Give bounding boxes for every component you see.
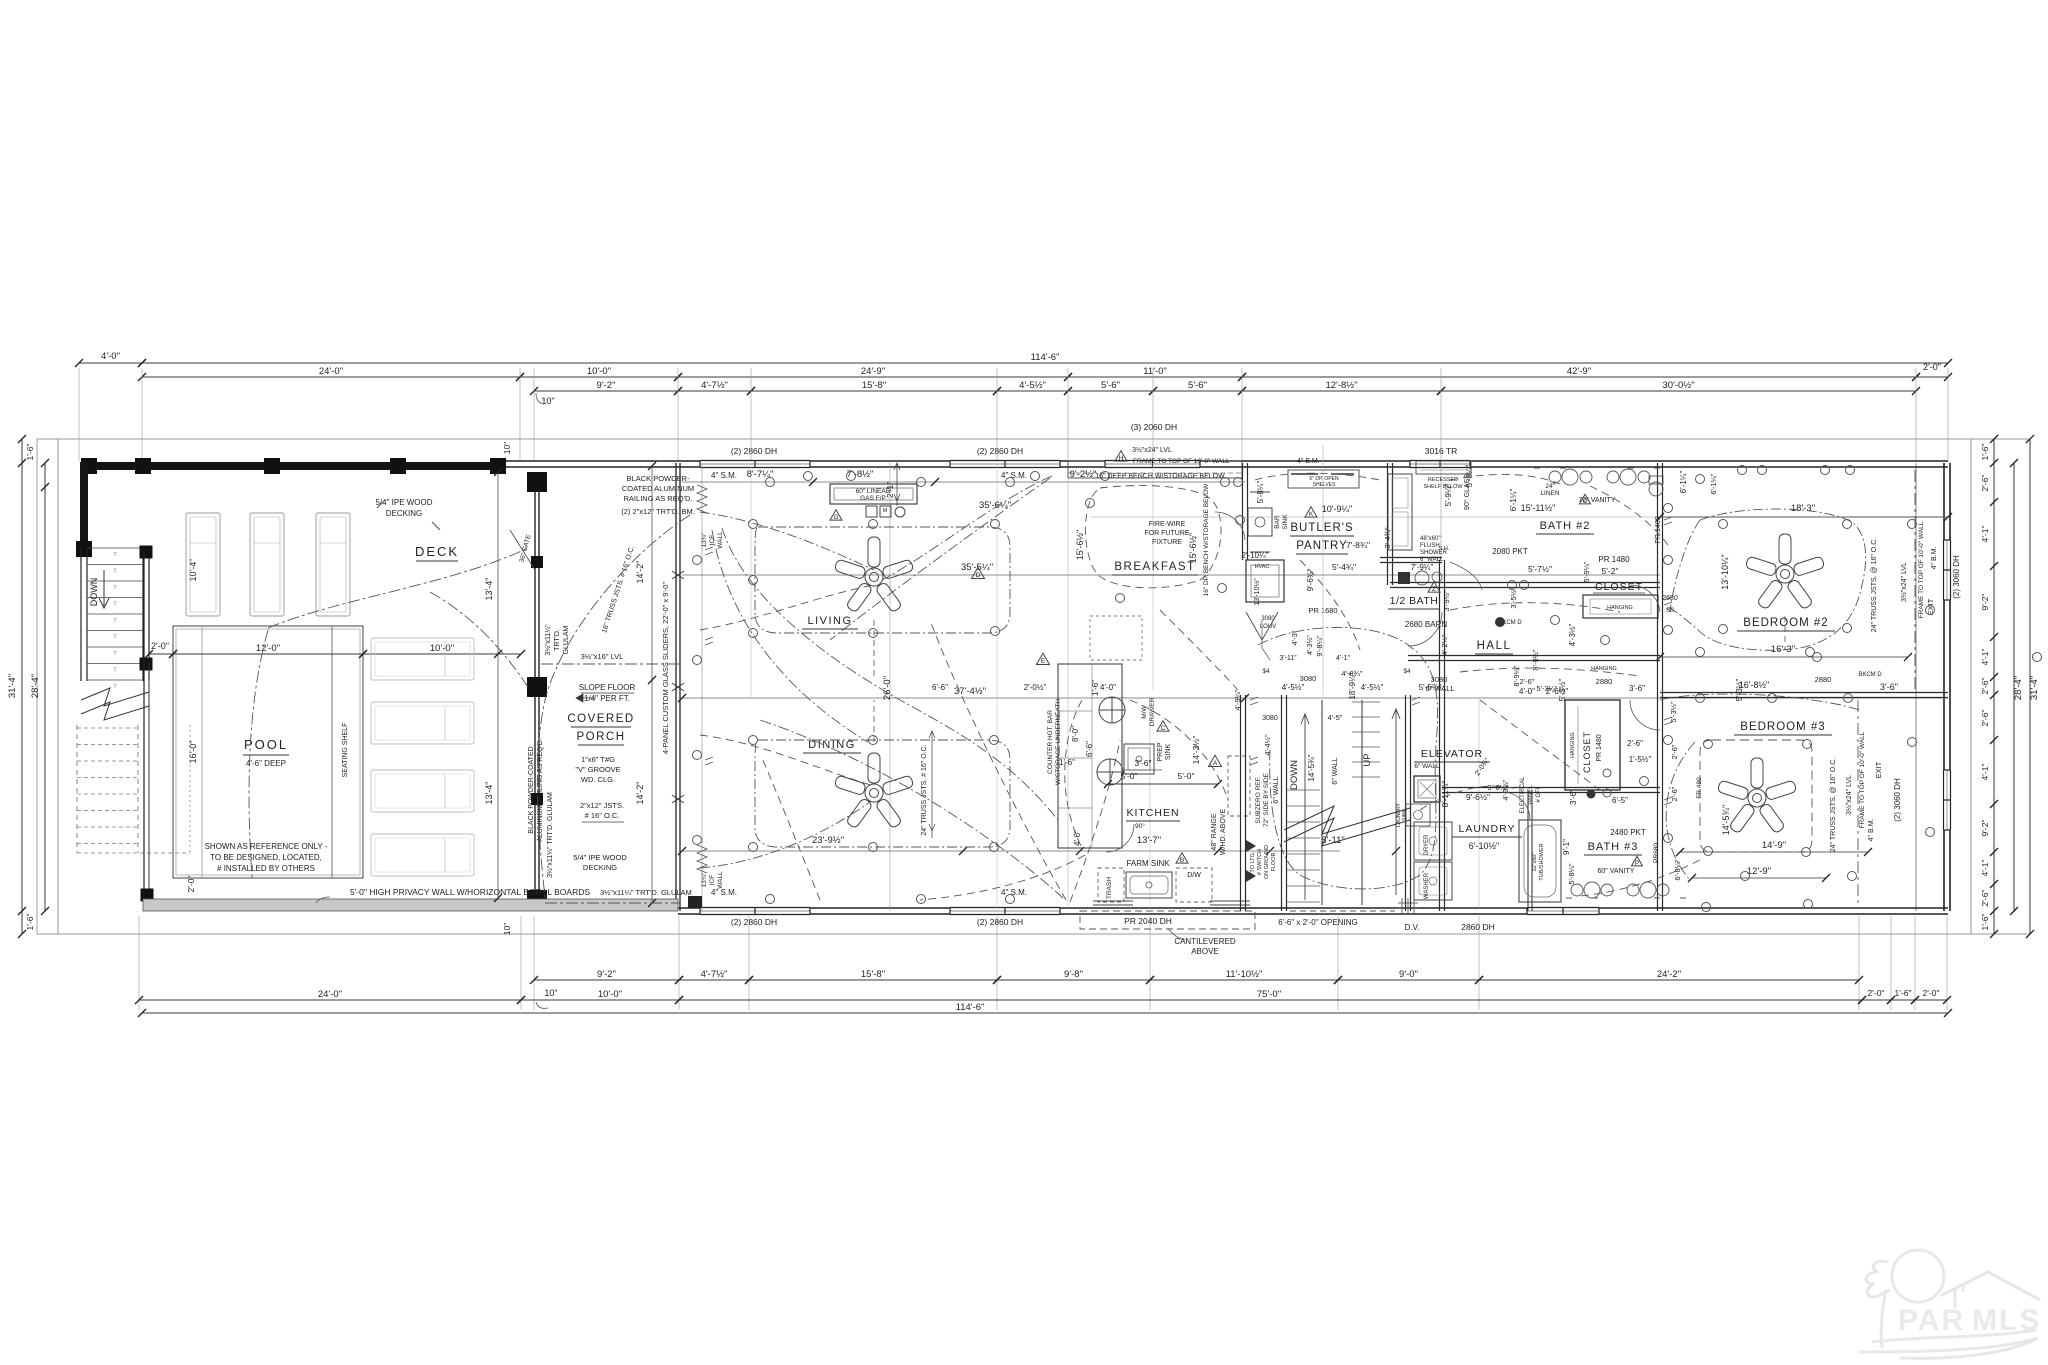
half bath fixtures bbox=[1398, 572, 1410, 584]
svg-text:3½"x16" LVL: 3½"x16" LVL bbox=[581, 652, 624, 661]
svg-text:(2) 2860 DH: (2) 2860 DH bbox=[977, 446, 1023, 456]
wall stair mid bbox=[1321, 700, 1323, 905]
svg-text:FRAME TO TOP OF 10'-0" WALL: FRAME TO TOP OF 10'-0" WALL bbox=[1859, 731, 1866, 828]
svg-text:MLS: MLS bbox=[1972, 1304, 2041, 1337]
svg-text:2'-6": 2'-6" bbox=[1627, 739, 1643, 748]
svg-text:5'-2": 5'-2" bbox=[1602, 566, 1619, 576]
top dimension row B bbox=[79, 362, 142, 364]
svg-text:BATH #2: BATH #2 bbox=[1540, 520, 1591, 532]
svg-text:10'-4": 10'-4" bbox=[188, 559, 198, 582]
wiring butlers curves bbox=[1255, 473, 1380, 480]
svg-text:3'-6": 3'-6" bbox=[1135, 758, 1152, 768]
svg-text:5'-9¼": 5'-9¼" bbox=[1582, 561, 1591, 583]
svg-text:2860 DH: 2860 DH bbox=[1461, 922, 1495, 932]
svg-text:WALL: WALL bbox=[717, 871, 724, 889]
svg-text:SS: SS bbox=[1666, 608, 1674, 614]
svg-text:4" B.M.: 4" B.M. bbox=[1297, 458, 1320, 465]
wall butlers west bbox=[1242, 463, 1244, 560]
wall stair mid2 bbox=[1361, 700, 1363, 905]
svg-text:FLUSH: FLUSH bbox=[1420, 543, 1440, 549]
svg-text:SINK: SINK bbox=[1282, 514, 1289, 530]
svg-text:75'-0": 75'-0" bbox=[1257, 989, 1281, 1000]
svg-text:2'-6": 2'-6" bbox=[1980, 710, 1990, 727]
interior stairs up bbox=[1352, 701, 1380, 703]
svg-text:HANGING: HANGING bbox=[1570, 732, 1576, 758]
svg-text:8'-0": 8'-0" bbox=[1071, 726, 1080, 742]
svg-text:90°: 90° bbox=[1135, 822, 1145, 830]
svg-text:WALL: WALL bbox=[717, 531, 724, 549]
wiring loop dining bbox=[755, 740, 1010, 847]
svg-text:18'-3": 18'-3" bbox=[1791, 503, 1815, 514]
svg-text:5/4" IPE WOOD: 5/4" IPE WOOD bbox=[375, 498, 432, 507]
bath3 vanity circles bbox=[1566, 882, 1686, 898]
svg-text:6'-1¼": 6'-1¼" bbox=[1709, 473, 1718, 495]
tub bbox=[1519, 820, 1561, 902]
svg-text:13'-7": 13'-7" bbox=[1137, 835, 1161, 846]
svg-text:B: B bbox=[1180, 857, 1184, 864]
bottom extension lines bbox=[138, 916, 140, 1010]
ceiling fan living bbox=[834, 537, 914, 613]
svg-text:10'-0": 10'-0" bbox=[587, 366, 611, 377]
svg-text:5'-3½": 5'-3½" bbox=[1735, 679, 1744, 702]
svg-text:1/2 BATH: 1/2 BATH bbox=[1390, 595, 1439, 607]
svg-text:9'-8¼": 9'-8¼" bbox=[1315, 635, 1324, 657]
svg-text:4" S.M.: 4" S.M. bbox=[1001, 888, 1027, 897]
svg-text:1'-6": 1'-6" bbox=[1895, 988, 1912, 998]
svg-text:4'-0": 4'-0" bbox=[101, 351, 120, 362]
svg-text:# GFI: # GFI bbox=[1536, 787, 1542, 802]
svg-text:4'-4½": 4'-4½" bbox=[1263, 734, 1272, 756]
wall bedrooms west bbox=[1657, 463, 1659, 911]
svg-text:5'-8¼": 5'-8¼" bbox=[1256, 481, 1265, 504]
svg-text:4-PANEL CUSTOM GLASS SLIDERS,: 4-PANEL CUSTOM GLASS SLIDERS, 22'-0" x 9… bbox=[661, 582, 670, 755]
svg-text:BREAKFAST: BREAKFAST bbox=[1114, 561, 1195, 573]
bedroom3 wiring loop bbox=[1700, 740, 1812, 852]
svg-text:48"x60": 48"x60" bbox=[1420, 536, 1441, 542]
svg-text:4'-0": 4'-0" bbox=[1100, 683, 1116, 692]
svg-text:TUB/SHOWER: TUB/SHOWER bbox=[1539, 843, 1545, 880]
svg-text:24'-0": 24'-0" bbox=[319, 366, 343, 377]
svg-text:10": 10" bbox=[502, 442, 512, 454]
svg-text:37'-4½": 37'-4½" bbox=[954, 686, 986, 697]
svg-text:3½"x24" LVL: 3½"x24" LVL bbox=[1900, 562, 1908, 602]
left dimension lines bbox=[21, 439, 23, 934]
svg-text:COUNTER HGT. BAR: COUNTER HGT. BAR bbox=[1047, 710, 1054, 774]
svg-text:30'-0½": 30'-0½" bbox=[1662, 380, 1694, 391]
svg-text:3'-9½": 3'-9½" bbox=[1442, 590, 1451, 612]
svg-text:10": 10" bbox=[502, 923, 512, 935]
svg-text:3'-5½": 3'-5½" bbox=[1509, 587, 1518, 609]
svg-text:24'-2": 24'-2" bbox=[1657, 969, 1681, 980]
svg-text:2'-0": 2'-0" bbox=[1868, 988, 1885, 998]
svg-text:2'-0½": 2'-0½" bbox=[1024, 683, 1047, 692]
svg-text:4" B.M.: 4" B.M. bbox=[1868, 819, 1875, 842]
watermark logo PAR MLS bbox=[1860, 1250, 2040, 1358]
svg-text:WD. CLG.: WD. CLG. bbox=[581, 775, 615, 784]
wall bedroom divider bbox=[1660, 692, 1948, 694]
top dimension row 114ft6 bbox=[142, 362, 1948, 364]
svg-text:7'-9¼": 7'-9¼" bbox=[1411, 563, 1434, 572]
svg-text:10'-0": 10'-0" bbox=[430, 643, 454, 654]
svg-text:10": 10" bbox=[544, 988, 557, 998]
laundry sink bbox=[1406, 804, 1430, 826]
svg-text:26'-0": 26'-0" bbox=[882, 676, 893, 700]
svg-text:23'-9½": 23'-9½" bbox=[812, 835, 844, 846]
svg-text:1'-6": 1'-6" bbox=[1980, 914, 1990, 931]
svg-text:10'-0": 10'-0" bbox=[598, 989, 622, 1000]
svg-text:5'-6": 5'-6" bbox=[1188, 380, 1207, 391]
svg-text:SINK: SINK bbox=[1402, 809, 1408, 821]
svg-text:LINEN: LINEN bbox=[1540, 490, 1559, 497]
svg-text:14'-5¾": 14'-5¾" bbox=[1307, 754, 1316, 781]
svg-text:D/W: D/W bbox=[1187, 872, 1201, 879]
svg-text:13'-10¼": 13'-10¼" bbox=[1720, 554, 1730, 589]
svg-text:60" VANITY: 60" VANITY bbox=[1598, 868, 1635, 875]
svg-text:15'-8": 15'-8" bbox=[861, 969, 885, 980]
svg-text:Z: Z bbox=[1432, 586, 1436, 593]
svg-text:6" WALL: 6" WALL bbox=[1420, 557, 1444, 563]
svg-text:3½"x11¼" TRT'D. GLULAM: 3½"x11¼" TRT'D. GLULAM bbox=[600, 888, 692, 897]
wiring bedroom3 tail bbox=[1580, 860, 1700, 896]
svg-text:D.V.: D.V. bbox=[1405, 923, 1420, 932]
svg-text:2'-1": 2'-1" bbox=[886, 482, 895, 498]
svg-text:4'-7½": 4'-7½" bbox=[701, 969, 728, 980]
svg-text:BLACK POWDER-COATED: BLACK POWDER-COATED bbox=[528, 746, 535, 833]
svg-text:LIVING: LIVING bbox=[807, 615, 852, 627]
kitchen symbols triangles bbox=[972, 567, 985, 578]
kitchen island bbox=[1058, 664, 1122, 848]
wall stair west bbox=[1281, 695, 1283, 911]
wiring kitchen curves bbox=[1065, 700, 1082, 848]
svg-text:EXIT: EXIT bbox=[1874, 761, 1883, 778]
svg-text:5'-3½": 5'-3½" bbox=[1669, 701, 1678, 723]
pool dimension row bbox=[149, 653, 173, 655]
svg-text:12'-8½": 12'-8½" bbox=[1325, 380, 1357, 391]
svg-text:9'-2": 9'-2" bbox=[597, 969, 616, 980]
svg-text:15'-11½": 15'-11½" bbox=[1521, 503, 1556, 513]
wiring bath2 curves bbox=[1450, 474, 1560, 484]
svg-text:4'-3": 4'-3" bbox=[1290, 630, 1299, 645]
wall central bbox=[1439, 560, 1441, 911]
svg-text:28'-4": 28'-4" bbox=[2013, 676, 2024, 700]
svg-text:FR 480: FR 480 bbox=[1696, 777, 1703, 799]
svg-text:2'-0": 2'-0" bbox=[186, 876, 196, 893]
svg-text:3½"x11¼" TRT'D. GLULAM: 3½"x11¼" TRT'D. GLULAM bbox=[546, 792, 554, 878]
cantilever dashed outline bbox=[1080, 911, 1255, 929]
gas fireplace bbox=[830, 484, 917, 504]
svg-text:D: D bbox=[976, 572, 981, 579]
svg-text:14'-9": 14'-9" bbox=[1762, 840, 1786, 851]
svg-text:5'-9¼": 5'-9¼" bbox=[1444, 484, 1453, 507]
svg-text:K: K bbox=[1309, 511, 1314, 518]
house right wall bbox=[1943, 463, 1945, 911]
svg-text:13¾": 13¾" bbox=[701, 872, 708, 888]
svg-text:GAS F/P: GAS F/P bbox=[860, 495, 886, 502]
svg-text:1/4" PER FT.: 1/4" PER FT. bbox=[584, 694, 630, 703]
svg-text:4'-1": 4'-1" bbox=[1980, 764, 1990, 781]
misc symbols hall/bath2 bbox=[1508, 581, 1517, 590]
svg-text:2'-6": 2'-6" bbox=[1670, 744, 1679, 759]
svg-text:4'-9¼": 4'-9¼" bbox=[1233, 689, 1242, 711]
top right corner bedroom2 symbols bbox=[1696, 475, 1705, 484]
deck left wall bbox=[80, 462, 88, 548]
svg-text:SLOPE FLOOR: SLOPE FLOOR bbox=[579, 683, 636, 692]
house bottom wall bbox=[678, 907, 1948, 909]
farm sink bbox=[1126, 872, 1172, 898]
svg-text:15'-6½": 15'-6½" bbox=[1188, 533, 1198, 563]
svg-text:13¾": 13¾" bbox=[701, 532, 708, 548]
svg-text:9'-0": 9'-0" bbox=[1399, 969, 1418, 980]
wiring fan taps bbox=[873, 620, 875, 680]
svg-text:6'-6" x 2'-0" OPENING: 6'-6" x 2'-0" OPENING bbox=[1278, 918, 1357, 927]
bath2 vanity bbox=[1534, 468, 1663, 496]
svg-text:4" S.M.: 4" S.M. bbox=[711, 888, 737, 897]
svg-text:10": 10" bbox=[541, 396, 554, 406]
svg-text:14'-2": 14'-2" bbox=[635, 561, 645, 584]
privacy wall bbox=[143, 899, 678, 911]
closet2 walls bbox=[1565, 700, 1620, 790]
breakfast bay bench bbox=[1068, 461, 1242, 478]
svg-text:2880: 2880 bbox=[1815, 675, 1832, 684]
svg-text:2'-10¼": 2'-10¼" bbox=[1241, 551, 1268, 560]
svg-text:13'-4": 13'-4" bbox=[484, 578, 494, 601]
svg-text:16" DEEP BENCH W/STORAGE BELOW: 16" DEEP BENCH W/STORAGE BELOW bbox=[1095, 473, 1225, 480]
svg-text:14'-5¾": 14'-5¾" bbox=[1721, 805, 1731, 835]
svg-text:4'-5": 4'-5" bbox=[1328, 713, 1343, 722]
interior horizontal reference lines bbox=[682, 481, 1245, 483]
svg-text:3080: 3080 bbox=[1300, 674, 1317, 683]
svg-text:2'-0": 2'-0" bbox=[1923, 362, 1941, 372]
svg-text:3080: 3080 bbox=[1262, 715, 1278, 722]
svg-text:DOWN: DOWN bbox=[1289, 760, 1300, 790]
svg-text:16'-0": 16'-0" bbox=[188, 741, 198, 764]
svg-text:DECK: DECK bbox=[415, 544, 459, 559]
svg-text:W/STORAGE UNDERNEATH: W/STORAGE UNDERNEATH bbox=[1055, 699, 1062, 785]
svg-text:M: M bbox=[883, 508, 888, 514]
svg-text:W/HD. ABOVE: W/HD. ABOVE bbox=[1220, 809, 1227, 856]
svg-text:RECESSED: RECESSED bbox=[1428, 477, 1458, 483]
svg-text:24" TRUSS JSTS. # 16" O.C.: 24" TRUSS JSTS. # 16" O.C. bbox=[921, 744, 928, 835]
svg-text:13'-4": 13'-4" bbox=[484, 782, 494, 805]
svg-text:35'-6¼": 35'-6¼" bbox=[979, 500, 1011, 511]
svg-text:S.H.: S.H. bbox=[1439, 546, 1450, 552]
kitchen 90 door arc bbox=[1106, 824, 1134, 852]
wiring loop living bbox=[755, 527, 1010, 633]
svg-text:15'-6½": 15'-6½" bbox=[1075, 530, 1085, 560]
svg-text:2080 PKT: 2080 PKT bbox=[1492, 547, 1528, 556]
svg-text:BATH #3: BATH #3 bbox=[1588, 841, 1639, 853]
svg-text:4'-7½": 4'-7½" bbox=[701, 380, 728, 391]
svg-text:8'-11¼": 8'-11¼" bbox=[1441, 781, 1450, 808]
svg-text:FRAME TO TOP OF 10'-0" WALL: FRAME TO TOP OF 10'-0" WALL bbox=[1133, 458, 1230, 465]
svg-text:2'-6": 2'-6" bbox=[1980, 475, 1990, 492]
pool outline bbox=[173, 626, 363, 878]
wall bath3 north bbox=[1442, 787, 1660, 789]
svg-text:TRASH: TRASH bbox=[1106, 877, 1113, 899]
svg-text:DOWN: DOWN bbox=[89, 578, 99, 607]
right dimension lines bbox=[2029, 439, 2031, 934]
svg-text:6'-8¼": 6'-8¼" bbox=[1673, 859, 1682, 881]
svg-text:2'-6": 2'-6" bbox=[1980, 890, 1990, 907]
wall switch ticks bbox=[705, 547, 713, 555]
svg-text:14'-2": 14'-2" bbox=[635, 782, 645, 805]
svg-text:TO BE DESIGNED, LOCATED,: TO BE DESIGNED, LOCATED, bbox=[210, 853, 322, 862]
bottom dimension row 2 bbox=[139, 999, 521, 1001]
svg-text:# INSTALLED BY OTHERS: # INSTALLED BY OTHERS bbox=[217, 864, 315, 873]
svg-text:(2) 2860 DH: (2) 2860 DH bbox=[731, 446, 777, 456]
svg-text:ELEVATOR: ELEVATOR bbox=[1421, 748, 1483, 760]
interior vertical reference lines bbox=[889, 463, 891, 911]
ceiling fan bedroom 3 bbox=[1717, 758, 1797, 834]
svg-text:24": 24" bbox=[1545, 483, 1555, 490]
wiring stair elevator loop bbox=[1258, 627, 1438, 889]
wiring hall curves bbox=[1450, 603, 1620, 612]
svg-text:PR 1480: PR 1480 bbox=[1598, 555, 1630, 564]
svg-text:DECKING: DECKING bbox=[583, 863, 617, 872]
trash pullout bbox=[1098, 868, 1124, 902]
svg-text:ELECTRICAL: ELECTRICAL bbox=[1520, 776, 1526, 814]
svg-text:2'-0": 2'-0" bbox=[1923, 988, 1940, 998]
ceiling fan bedroom 2 bbox=[1745, 534, 1825, 610]
svg-text:BUTLER'S: BUTLER'S bbox=[1290, 522, 1353, 534]
svg-text:9'-2": 9'-2" bbox=[1980, 820, 1990, 837]
bar sink bbox=[1248, 508, 1272, 536]
svg-text:3'-11": 3'-11" bbox=[1279, 655, 1297, 662]
svg-text:1'-5½": 1'-5½" bbox=[1629, 755, 1652, 764]
svg-text:GLULAM: GLULAM bbox=[563, 625, 570, 654]
wall bath2 west bbox=[1387, 463, 1389, 585]
svg-text:FLOOR: FLOOR bbox=[1271, 853, 1277, 872]
svg-text:CLOSET: CLOSET bbox=[1595, 581, 1643, 593]
svg-text:ON GROUND: ON GROUND bbox=[1264, 845, 1270, 879]
svg-text:ICF: ICF bbox=[709, 875, 716, 886]
elevator shaft bbox=[1414, 776, 1440, 802]
deck top wall bbox=[80, 462, 506, 470]
icf wall inner face bbox=[701, 463, 703, 911]
wiring deck long dashdot bbox=[268, 548, 528, 628]
bath2 closet bbox=[1583, 595, 1658, 618]
wall hall north bbox=[1390, 582, 1660, 584]
svg-text:2680: 2680 bbox=[1662, 595, 1678, 602]
bath2 shower bbox=[1388, 474, 1412, 550]
svg-text:24'-9": 24'-9" bbox=[861, 366, 885, 377]
svg-text:32"x60": 32"x60" bbox=[1532, 853, 1538, 872]
svg-text:2'-0": 2'-0" bbox=[151, 641, 169, 651]
svg-text:3½"x24" LVL: 3½"x24" LVL bbox=[1845, 775, 1853, 815]
washer bbox=[1414, 862, 1452, 900]
svg-text:3'-6": 3'-6" bbox=[1880, 682, 1898, 692]
svg-text:5'-3¼": 5'-3¼" bbox=[1536, 684, 1558, 693]
interior stairs down bbox=[1286, 789, 1320, 791]
svg-text:SHELVES: SHELVES bbox=[1313, 482, 1336, 488]
prep sink bbox=[1124, 744, 1154, 774]
svg-text:31'-4": 31'-4" bbox=[2029, 676, 2040, 700]
svg-text:WASHER: WASHER bbox=[1424, 872, 1430, 899]
wall halfbath south bbox=[1380, 557, 1442, 559]
svg-text:2"x12" JSTS.: 2"x12" JSTS. bbox=[580, 801, 624, 810]
top extension lines bbox=[78, 368, 80, 461]
svg-text:7'-8¾": 7'-8¾" bbox=[1346, 540, 1370, 550]
svg-text:6'-1¼": 6'-1¼" bbox=[1509, 489, 1518, 512]
wall bath3 closet bbox=[1527, 790, 1529, 911]
wiring living stub curves bbox=[700, 512, 874, 570]
kitchen pendant circles bbox=[1097, 697, 1125, 785]
svg-text:PR 1480: PR 1480 bbox=[1596, 734, 1603, 761]
svg-text:2'-6": 2'-6" bbox=[1520, 677, 1535, 686]
svg-text:114'-6": 114'-6" bbox=[1031, 352, 1060, 363]
porch west wall bbox=[534, 472, 536, 911]
svg-text:TO LTG.: TO LTG. bbox=[1250, 851, 1256, 872]
svg-text:48" RANGE: 48" RANGE bbox=[1211, 813, 1218, 850]
svg-text:4'-6" DEEP: 4'-6" DEEP bbox=[246, 759, 286, 768]
svg-text:(2) 2"x12" TRT'D. BM.: (2) 2"x12" TRT'D. BM. bbox=[621, 507, 695, 516]
svg-text:16" DP. BENCH W/STORAGE BELOW: 16" DP. BENCH W/STORAGE BELOW bbox=[1203, 483, 1210, 596]
svg-text:15'-8": 15'-8" bbox=[862, 380, 886, 391]
svg-text:(3) 2060 DH: (3) 2060 DH bbox=[1131, 422, 1177, 432]
svg-text:1'-6": 1'-6" bbox=[1980, 444, 1990, 461]
svg-text:H: H bbox=[1119, 455, 1124, 462]
svg-text:DRYER: DRYER bbox=[1424, 834, 1430, 856]
svg-text:8'-9½": 8'-9½" bbox=[1531, 649, 1540, 671]
svg-text:4'-2½": 4'-2½" bbox=[1440, 634, 1449, 656]
svg-text:3'-6": 3'-6" bbox=[1629, 684, 1645, 693]
svg-text:A: A bbox=[1213, 760, 1218, 767]
svg-text:3'-6": 3'-6" bbox=[1569, 789, 1578, 805]
half bath hvac leaders bbox=[1262, 620, 1270, 660]
svg-text:P: P bbox=[1635, 860, 1639, 867]
svg-text:24" TRUSS JSTS. @ 16" O.C.: 24" TRUSS JSTS. @ 16" O.C. bbox=[1830, 758, 1837, 852]
svg-text:HVAC: HVAC bbox=[1255, 564, 1270, 570]
svg-text:SUBZERO REF.: SUBZERO REF. bbox=[1255, 776, 1262, 824]
svg-text:12'-9": 12'-9" bbox=[1747, 866, 1771, 877]
svg-text:6" WALL: 6" WALL bbox=[1414, 763, 1440, 770]
svg-text:9'-1": 9'-1" bbox=[1562, 839, 1571, 855]
svg-text:5'-4¾": 5'-4¾" bbox=[1332, 562, 1356, 572]
svg-text:PR680: PR680 bbox=[1653, 843, 1660, 863]
bottom dimension row 1 bbox=[534, 979, 679, 981]
svg-text:4'-1": 4'-1" bbox=[1980, 649, 1990, 666]
svg-text:4'-1": 4'-1" bbox=[1980, 860, 1990, 877]
svg-text:PR 2040 DH: PR 2040 DH bbox=[1124, 916, 1172, 926]
svg-text:FRAME TO TOP OF 10'-0" WALL: FRAME TO TOP OF 10'-0" WALL bbox=[1918, 521, 1925, 618]
pool deck left edge bbox=[143, 548, 145, 900]
svg-text:E: E bbox=[1041, 658, 1046, 665]
svg-text:ICF: ICF bbox=[709, 535, 716, 546]
svg-text:ABOVE: ABOVE bbox=[1191, 947, 1219, 956]
svg-text:DECKING: DECKING bbox=[386, 509, 422, 518]
svg-text:14'-3½": 14'-3½" bbox=[1191, 736, 1201, 765]
svg-text:11'-10½": 11'-10½" bbox=[1226, 969, 1263, 980]
svg-text:O: O bbox=[1582, 498, 1587, 505]
house top wall bbox=[506, 460, 1948, 462]
svg-text:PAR: PAR bbox=[1898, 1304, 1965, 1337]
stair break bbox=[1284, 806, 1410, 834]
svg-text:COVERED: COVERED bbox=[567, 713, 634, 725]
svg-text:5'-0" HIGH PRIVACY WALL W/HORI: 5'-0" HIGH PRIVACY WALL W/HORIZONTAL BOR… bbox=[350, 887, 590, 897]
svg-text:72" SIDE BY SIDE: 72" SIDE BY SIDE bbox=[1263, 772, 1270, 827]
svg-text:UP: UP bbox=[1362, 753, 1373, 766]
svg-text:2480 PKT: 2480 PKT bbox=[1610, 828, 1646, 837]
svg-text:TRT'D.: TRT'D. bbox=[554, 629, 561, 651]
svg-text:PANEL: PANEL bbox=[1528, 785, 1534, 805]
svg-text:5'-7½": 5'-7½" bbox=[1528, 564, 1552, 574]
svg-text:COATED ALUMINUM: COATED ALUMINUM bbox=[622, 484, 694, 493]
top dimension row C bbox=[534, 390, 678, 392]
svg-text:10'-9¼": 10'-9¼" bbox=[1322, 504, 1352, 514]
svg-text:SINK: SINK bbox=[1165, 744, 1172, 761]
wall kitchen east bbox=[1240, 695, 1242, 911]
svg-text:9'-2": 9'-2" bbox=[1980, 594, 1990, 611]
